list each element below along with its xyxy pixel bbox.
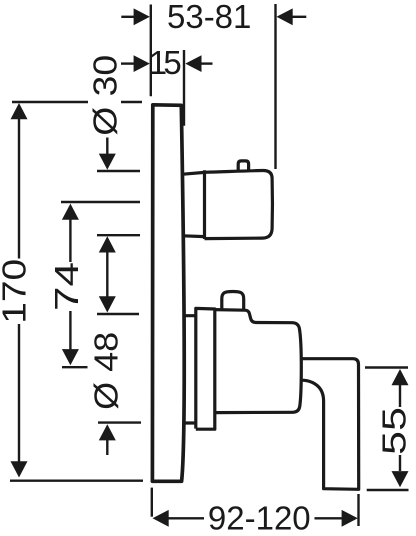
svg-text:Ø 30: Ø 30 (87, 55, 124, 136)
lever handle (302, 359, 359, 490)
svg-text:92-120: 92-120 (208, 500, 311, 536)
valve body (215, 310, 301, 413)
dim 170: dimension line + arrows (18, 119, 20, 462)
thermostat knob body (203, 170, 206, 239)
dim Ø48: top down arrow (99, 296, 116, 312)
dim Ø30: bottom tick (97, 234, 140, 236)
dim 74: bottom tick (62, 366, 88, 368)
svg-text:53-81: 53-81 (167, 0, 251, 35)
svg-text:15: 15 (149, 44, 182, 81)
dim 92-120: right extension line (357, 494, 359, 526)
escutcheon plate (side view) (152, 105, 184, 482)
dim Ø48: bottom up arrow + line (106, 440, 108, 455)
svg-text:55: 55 (376, 407, 413, 455)
dim 92-120: dimension line + arrows (168, 517, 342, 519)
dim 53-81: left extension line (150, 5, 152, 97)
dim 74: dimension line + arrows (69, 219, 71, 349)
dim 55: dimension line + arrows (399, 385, 401, 471)
svg-text:Ø 48: Ø 48 (88, 332, 125, 410)
valve body button (222, 292, 244, 312)
dim 53-81: left arrow (121, 16, 134, 18)
dim 53-81: right extension line (274, 4, 276, 169)
dim 15: right arrow (201, 62, 213, 64)
dim Ø30: top tick (97, 170, 140, 172)
dim 55: bottom tick (367, 489, 409, 491)
svg-text:74: 74 (48, 262, 85, 311)
knob top tab (238, 161, 248, 172)
dim 55: top tick (365, 366, 408, 368)
dim 92-120: left extension line (151, 488, 153, 517)
dim 53-81: right arrow (293, 16, 307, 18)
dim Ø30: line above + down arrow (106, 138, 108, 155)
dim 170: top tick (12, 101, 142, 103)
svg-text:170: 170 (0, 259, 33, 324)
dim Ø30: up arrow below / connector to Ø48 top arrow (106, 252, 108, 297)
lower sleeve ring B (196, 308, 215, 429)
dim 15: left arrow (121, 62, 134, 64)
dim 74: top tick (61, 201, 140, 203)
lower sleeve ring A (183, 316, 196, 423)
dim 15: right extension line (183, 50, 185, 126)
dim Ø48: bottom tick (98, 421, 141, 423)
dim Ø48: top tick (97, 313, 139, 315)
dim 170: bottom tick (10, 480, 143, 482)
upper handle neck (183, 172, 205, 236)
